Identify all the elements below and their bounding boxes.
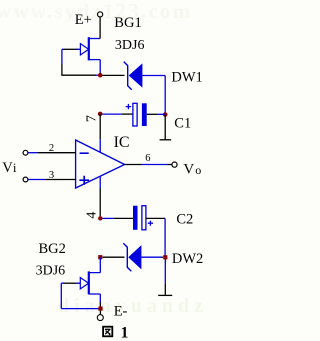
capacitor C2 positive plate (hollow) <box>142 206 146 230</box>
wire stub below J5 <box>164 259 166 283</box>
capacitor C1 plus sign <box>126 104 131 109</box>
transistor BG2 gate arrow <box>80 278 88 289</box>
capacitor C1 positive plate (hollow) <box>133 103 137 126</box>
wire J7 to C2 <box>103 217 114 219</box>
svg-text:3: 3 <box>49 170 54 181</box>
svg-text:V: V <box>2 160 13 176</box>
node J1 (100,75) <box>98 73 103 78</box>
zener DW1 cathode bar <box>124 62 132 90</box>
wire right rail upper <box>164 76 166 115</box>
wire DW1 anode to right rail <box>142 75 165 77</box>
capacitor C2 plus sign <box>148 221 153 226</box>
node J7 (100,218) <box>98 216 102 220</box>
zener DW2 cathode bar <box>123 243 131 271</box>
node J4 (100,257) <box>98 255 102 259</box>
wire BG1 feedback bottom <box>61 74 96 76</box>
svg-text:dianyuandz: dianyuandz <box>58 295 208 317</box>
svg-text:i: i <box>13 160 17 175</box>
transistor BG1 source wire <box>89 60 100 76</box>
svg-text:E-: E- <box>114 304 128 320</box>
wire J4 to DW2 <box>103 256 125 258</box>
svg-text:3DJ6: 3DJ6 <box>36 264 66 279</box>
op-amp IC triangle <box>76 140 125 188</box>
svg-text:DW1: DW1 <box>171 70 202 86</box>
svg-text:DW2: DW2 <box>172 251 203 267</box>
wire J1 to DW1 <box>103 74 125 76</box>
zener DW2 triangle <box>128 245 141 269</box>
terminal Vo <box>172 162 177 167</box>
transistor BG1 drain wire <box>89 38 100 40</box>
svg-text:V: V <box>183 161 194 177</box>
wire C1 to J3 <box>147 113 157 115</box>
svg-text:www.sydz123.com: www.sydz123.com <box>0 0 192 23</box>
capacitor C2 negative plate (solid) <box>133 206 138 230</box>
svg-text:o: o <box>195 163 201 177</box>
terminal input pin 3 <box>23 177 28 182</box>
wire pin 6 output <box>125 164 141 166</box>
svg-text:2: 2 <box>49 143 54 154</box>
svg-text:4: 4 <box>85 212 100 219</box>
node J5 (165,257) <box>163 255 167 259</box>
svg-text:BG2: BG2 <box>39 241 66 257</box>
svg-text:C2: C2 <box>176 211 193 227</box>
wire DW2 anode to J5 <box>141 256 161 258</box>
node J6 (100,308) <box>98 307 102 311</box>
svg-text:6: 6 <box>145 153 150 164</box>
caption 图 glyph <box>103 327 112 337</box>
svg-text:1: 1 <box>121 325 129 341</box>
wire C2 to right rail <box>146 217 165 219</box>
wire BG1 feedback vertical <box>61 49 63 64</box>
op-amp plus sign <box>79 176 89 185</box>
zener DW1 triangle <box>129 63 143 87</box>
transistor BG2 channel bar <box>88 271 90 294</box>
wire stub below J3 <box>164 115 166 140</box>
node J2 (100,114) <box>98 112 103 117</box>
terminal input pin 2 <box>23 150 28 155</box>
transistor BG1 channel bar <box>88 37 90 60</box>
wire right rail middle <box>164 218 166 257</box>
svg-text:E+: E+ <box>75 12 92 28</box>
wire E- lead <box>99 311 101 315</box>
node J3 (165,114) <box>163 112 168 117</box>
svg-text:IC: IC <box>114 134 130 151</box>
wire pin 7 <box>99 114 101 140</box>
capacitor C1 negative plate (solid) <box>142 103 147 126</box>
wire J2 to C1 <box>103 113 123 115</box>
transistor BG2 source wire <box>89 294 101 302</box>
wire E+ lead <box>99 17 101 38</box>
wire BG2 feedback vertical <box>60 283 62 308</box>
svg-text:3DJ6: 3DJ6 <box>115 38 145 53</box>
wire pin 4 <box>99 176 101 188</box>
terminal E+ <box>98 12 103 17</box>
terminator bar below J3 <box>160 139 172 141</box>
transistor BG1 gate arrow <box>80 44 88 55</box>
wire BG1 gate <box>64 48 77 50</box>
terminator bar below J5 <box>158 294 172 296</box>
op-amp minus sign <box>80 152 89 154</box>
svg-text:7: 7 <box>85 115 100 122</box>
wire BG2 feedback bottom <box>61 308 100 310</box>
transistor BG2 drain wire <box>89 257 101 272</box>
wire pin 2 <box>28 152 37 154</box>
wire pin 3 <box>28 179 46 181</box>
wire BG2 gate <box>64 282 77 284</box>
svg-text:C1: C1 <box>174 116 191 132</box>
terminal E- <box>97 315 103 321</box>
svg-text:BG1: BG1 <box>114 15 141 31</box>
